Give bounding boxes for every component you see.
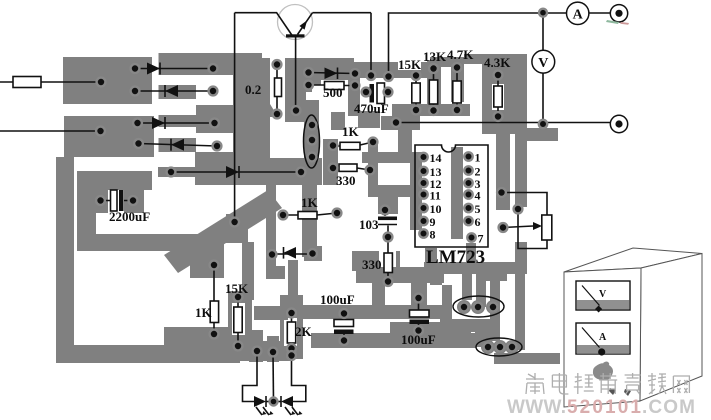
copper trace 15K feed [242,242,254,300]
copper strip IC left [410,152,422,230]
meter box right face [640,254,702,402]
wire 500 row [309,73,356,74]
pad [304,68,313,77]
oval pad group h1 [453,296,504,317]
pad [269,348,278,357]
pad [453,106,462,115]
oval pad group h2 [476,338,522,356]
IC pin 13 [419,167,427,175]
LED light arrows [256,407,269,415]
svg-text:100uF: 100uF [401,332,436,347]
pad [287,344,296,353]
wire V branch [542,13,544,124]
copper left finger row3 [159,115,197,127]
pad [287,351,296,360]
capacitor 103 [385,210,388,237]
wire vertical riser [234,13,236,222]
resistor 1K upper [333,142,373,146]
resistor 1K center [283,213,337,215]
copper band mid2 [356,267,444,283]
copper trace to diode pad [266,185,276,279]
pad [131,87,140,96]
resistor 4.7K [456,68,458,111]
junction node bottom [539,120,547,128]
resistor 1K left [213,265,215,334]
transistor Q1 [235,13,292,35]
pad [384,233,393,242]
wire diode row5 [171,171,301,173]
wire diode row1 [135,68,213,70]
copper T2 leg [476,281,486,307]
svg-text:4.7K: 4.7K [447,47,474,62]
pad [489,303,498,312]
wire diode row3 [138,122,215,124]
copper strip below 500 [331,112,345,130]
pad [287,309,296,318]
pad [210,330,219,339]
copper chunk to oval2 [475,319,492,347]
pad [131,64,140,73]
copper strip left pads 1K-330 [323,139,338,185]
svg-text:500: 500 [323,85,343,100]
pad [297,168,306,177]
pad [384,88,393,97]
IC pin 7 [467,233,475,241]
copper bridge 4.3K [464,54,482,64]
copper tab output pad [381,116,420,130]
diode D7 [284,247,297,259]
pad [381,206,390,215]
capacitor 100uF left [343,314,345,341]
resistor 500 [309,84,356,87]
copper link band-bar1 [372,283,385,307]
pad [384,72,393,81]
wire emitter down [295,37,297,111]
copper strip 4.7K [451,60,464,102]
pad [429,64,438,73]
svg-text:0.2: 0.2 [245,82,261,97]
copper oval2 pad tabs [481,340,495,354]
pad [497,188,506,197]
copper white window 4.3K [492,84,504,110]
IC pin 6 [464,217,472,225]
LED center wire [272,352,275,402]
copper bar1 [300,305,444,319]
wire output rail [396,122,611,124]
copper bar2 [311,333,476,348]
svg-text:.COM: .COM [642,397,695,418]
watermark chinese (drawn pseudo-glyphs) [526,373,689,394]
pad [133,119,142,128]
svg-text:WWW.: WWW. [507,397,566,418]
pad [209,64,218,73]
panel meter A [576,323,630,354]
wire mains top [0,81,101,83]
pad [329,141,338,150]
pot wiper arrow [503,226,533,228]
copper pour block A (top-left) [63,57,152,104]
terminal mark [606,20,619,24]
copper chunk diode row right [304,246,322,261]
pad [270,398,278,406]
copper T3 leg [490,281,500,341]
copper stub right [527,128,558,141]
LED LED1 [254,396,266,407]
copper strip oval [304,100,319,185]
svg-text:6: 6 [475,215,481,229]
LED bracket right [292,356,306,402]
copper oval2 tail [494,353,560,364]
svg-text:4.3K: 4.3K [484,55,511,70]
svg-text:A: A [599,332,607,343]
pad [384,277,393,286]
transistor Q1 outline circle [278,5,313,40]
copper left finger row1 [159,63,197,75]
wire top rail [389,13,567,77]
pad [460,303,469,312]
pad [273,110,282,119]
pad [367,71,376,80]
copper band under 100uF right [390,322,471,335]
resistor 15K bottom [237,297,239,346]
pad [134,139,143,148]
copper second L vertical [77,171,96,235]
svg-text:LM723: LM723 [426,247,485,268]
copper white notch above oval [306,92,316,102]
wire diode center row [272,253,313,255]
pad [392,118,401,127]
svg-text:A: A [573,8,584,23]
copper finger row8 [158,167,215,177]
copper outer L vertical [56,157,74,363]
pad [366,166,375,175]
copper strip v-right [515,134,527,207]
copper finger LED2 [267,336,279,362]
LED LED2 [281,396,293,407]
IC pin 14 [419,153,427,161]
svg-text:15K: 15K [398,57,422,72]
copper strip IC inner [451,147,463,239]
copper center chunk right [270,158,322,185]
svg-text:11: 11 [430,189,441,203]
svg-text:V: V [599,289,607,300]
pad [496,343,505,352]
pad [279,211,288,220]
pad [253,347,262,356]
svg-text:8: 8 [430,228,436,242]
terminal output - [610,115,627,132]
pad [273,60,282,69]
ammeter A [567,2,589,24]
svg-text:103: 103 [359,217,379,232]
svg-text:V: V [538,56,548,71]
copper emitter column [285,58,312,122]
resistor 4.3K [497,75,499,117]
terminal output + [610,5,627,22]
pad [484,343,493,352]
pad [308,249,317,258]
svg-text:1K: 1K [342,124,360,139]
copper chunk right of 470strip [358,111,380,128]
pad [494,112,503,121]
pad [268,250,277,259]
IC pin 9 [419,217,427,225]
copper stub pad 234 [226,214,248,243]
copper pour block B (mid-left) [64,116,154,157]
diode D1 [147,63,160,75]
pad [333,209,342,218]
svg-text:1: 1 [475,151,481,165]
IC pin 12 [419,179,427,187]
pad [453,63,462,72]
copper top band [159,53,263,63]
pad [369,138,378,147]
copper left finger row2 [159,85,197,99]
pad [96,196,105,205]
pad [96,127,105,136]
copper right leg [515,274,525,350]
svg-text:5: 5 [475,202,481,216]
copper block under 1K-left [164,327,240,349]
knob blob [593,363,613,380]
copper band 15K-2K [254,306,288,320]
copper strip 103 [378,196,398,214]
resistor 2K [291,313,293,349]
copper trace below IC T1 [424,262,525,274]
pad [412,106,421,115]
copper strip 470 left [348,76,360,116]
svg-text:2200uF: 2200uF [109,209,150,224]
copper T1 left leg [462,274,472,300]
pad [304,81,313,90]
copper finger row1 [196,63,233,75]
diode D6 [325,68,338,80]
copper outer L bottom [56,345,240,363]
svg-text:7: 7 [478,232,484,246]
diode D5 [226,166,239,178]
copper strip right of 0.2 channel [257,104,270,185]
copper band above 4.7K [430,57,464,67]
pad [129,196,138,205]
svg-text:1K: 1K [301,195,319,210]
svg-text:330: 330 [336,173,356,188]
svg-text:100uF: 100uF [320,292,355,307]
resistor 330 vertical [387,237,389,282]
copper finger row3 [196,105,233,133]
meter box top face [564,248,702,272]
copper tab 100uF right [411,283,427,305]
pad [362,88,371,97]
copper strip pads 1K-330 [368,139,378,185]
copper 2200uF feed [96,171,152,190]
svg-text:14: 14 [430,151,442,165]
IC pin 11 [419,190,427,198]
pad [499,223,508,232]
IC pin 2 [464,166,472,174]
pot loop wires [502,193,548,249]
copper chunk right of pot [515,242,527,274]
diode D2 [165,85,178,97]
pad [351,81,360,90]
pad [414,294,423,303]
copper center chunk [195,152,270,185]
box dot 2 [624,389,631,396]
pad [308,136,317,145]
wire mains bottom [0,130,100,132]
panel meter V [576,281,630,310]
copper trace to 2K [288,260,298,313]
copper white notch 15K label [398,59,421,70]
pad [340,336,349,345]
pad [340,309,349,318]
copper band 330v [352,251,400,271]
svg-text:15K: 15K [225,281,249,296]
pad [167,168,176,177]
capacitor 100uF right [418,298,420,331]
pad [234,293,243,302]
meter box front face [564,268,641,407]
svg-text:470uF: 470uF [354,101,389,116]
copper mass right of bank [482,54,527,134]
copper strip 13K [427,60,441,110]
svg-text:10: 10 [430,202,442,216]
copper nested L left [430,276,442,285]
copper band bank left [392,62,430,78]
pad [412,71,421,80]
copper bank bottom tabs [392,104,470,116]
copper chunk row133 [233,115,270,152]
copper bottom strip center [230,341,292,361]
pad [308,153,317,162]
pad [234,342,243,351]
IC pin 8 [419,229,427,237]
pad [414,326,423,335]
LED bracket left [243,351,258,402]
copper link output-IC [398,128,412,154]
copper diagonal trace [164,190,282,273]
pad [474,303,483,312]
copper stub pin7 [466,243,476,264]
copper second L drop [190,234,224,251]
pad [514,205,523,214]
copper strip behind 1K-center [302,180,317,257]
fuse F1 [13,77,41,88]
resistor 15K top [415,76,417,111]
junction node top [539,9,547,17]
pad [308,121,317,130]
oval pad group vertical [304,115,320,168]
svg-text:4: 4 [475,189,481,203]
copper wedge [233,104,278,117]
resistor 13K [433,69,435,111]
svg-text:330: 330 [362,257,382,272]
IC U1 LM723 outline [415,145,488,247]
copper finger LED1 [249,330,263,362]
svg-text:13K: 13K [423,49,447,64]
pad [210,119,219,128]
copper stub pin8 [425,248,437,264]
pad [209,87,218,96]
IC pin 10 [419,204,427,212]
pad [230,218,239,227]
pad [508,343,517,352]
copper bottom band below ovals [440,319,491,332]
pad [429,106,438,115]
diode D4 [171,139,184,151]
svg-text:2K: 2K [295,324,313,339]
copper band mid [345,62,400,78]
copper 0.2 column [233,58,270,104]
wire diode row4 [139,144,218,147]
diode D3 [152,117,165,129]
potentiometer RP1 [542,215,552,240]
pad [329,164,338,173]
copper strips left of IC [362,152,410,163]
copper strip left of IC lower [368,185,410,197]
capacitor 470uF [370,84,375,103]
pad [351,69,360,78]
box dot 1 [609,388,616,395]
IC pin 5 [464,204,472,212]
capacitor 2200uF [101,200,134,202]
copper oval1 pad tabs [457,300,471,314]
copper block 2K [280,295,303,359]
pad [97,78,106,87]
wire diode row2 [135,90,213,92]
copper strip IC right [496,134,510,210]
copper chunk 500 [300,58,354,85]
copper left finger row4 [159,138,197,152]
resistor 0.2 [276,64,278,114]
IC pin 4 [464,190,472,198]
copper 2200uF tabs [94,190,108,213]
IC pin 3 [464,179,472,187]
copper block 15K-bottom [228,291,252,349]
IC pin 1 [464,152,472,160]
pad [292,106,301,115]
pad [210,261,219,270]
voltmeter V [532,50,555,73]
resistor 330 upper [333,168,370,170]
svg-text:1K: 1K [195,305,213,320]
copper T2 band [476,272,507,281]
wire top rail after A [589,12,611,14]
copper second L horizontal [77,234,190,251]
copper white window 500 [321,80,349,112]
pad [213,142,222,151]
pad [494,71,503,80]
